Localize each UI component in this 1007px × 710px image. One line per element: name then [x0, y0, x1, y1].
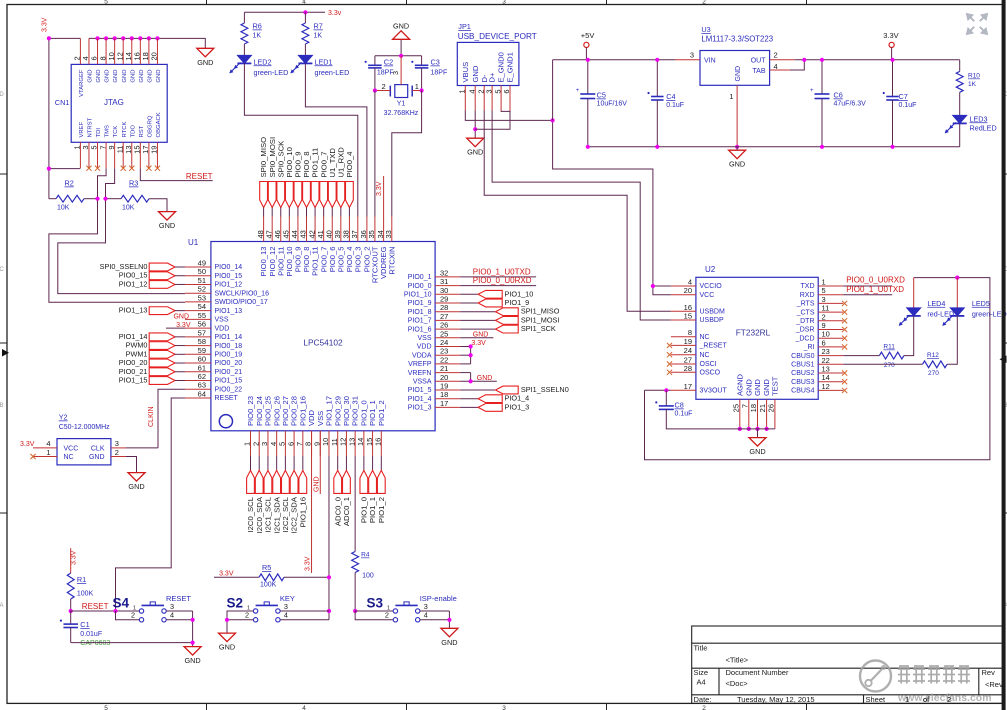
svg-text:C2: C2 [384, 58, 393, 67]
wire Y2 CLK to CLKIN [126, 447, 158, 449]
svg-text:6: 6 [822, 338, 826, 347]
svg-text:SPI1_SSELN0: SPI1_SSELN0 [521, 385, 569, 394]
svg-text:GND: GND [313, 476, 320, 492]
svg-text:PIO0_19: PIO0_19 [215, 352, 243, 359]
net flag PIO0_20 [149, 359, 175, 367]
net flag PIO1_4 [460, 398, 478, 400]
svg-text:PWM0: PWM0 [126, 341, 148, 350]
svg-text:JP1: JP1 [458, 22, 471, 31]
svg-text:PIO1_6: PIO1_6 [408, 326, 432, 333]
wire D- to U2 USBDM [484, 111, 671, 312]
pushbutton S4 RESET [139, 609, 143, 613]
svg-text:19: 19 [440, 382, 448, 391]
svg-text:Y2: Y2 [59, 413, 68, 422]
svg-text:R5: R5 [262, 563, 271, 572]
wire CN1 GND rail [89, 38, 205, 48]
svg-text:PIO0_4: PIO0_4 [345, 151, 354, 178]
resistor R5 100K [214, 576, 259, 578]
svg-text:CAP0603: CAP0603 [80, 640, 110, 647]
svg-text:1K: 1K [253, 33, 262, 40]
svg-text:GND: GND [96, 70, 102, 83]
svg-text:R10: R10 [968, 73, 980, 80]
pins U2 left [671, 285, 696, 287]
svg-text:CLKIN: CLKIN [148, 406, 155, 427]
net flag PIO1_3 [460, 406, 478, 408]
svg-text:KEY: KEY [280, 594, 295, 603]
wire U1 PIO1_17 to KEY [328, 456, 330, 611]
wire S4 pin3 [166, 610, 192, 612]
junction S4 pin4 [191, 618, 195, 622]
svg-text:26: 26 [766, 404, 775, 412]
svg-text:USB_DEVICE_PORT: USB_DEVICE_PORT [458, 32, 537, 41]
svg-text:GND: GND [473, 331, 489, 338]
pins Y2 left [33, 447, 57, 449]
svg-text:GND: GND [749, 447, 765, 456]
svg-text:GND: GND [184, 656, 200, 665]
svg-text:GND: GND [173, 313, 189, 320]
ground GND (JP1) [467, 138, 484, 147]
svg-text:www.elecfans.com: www.elecfans.com [897, 692, 992, 704]
svg-text:PIO1_12: PIO1_12 [215, 282, 243, 289]
no-connect Y2 NC [30, 454, 35, 459]
svg-text:GND: GND [393, 21, 409, 30]
svg-text:SPI1_MOSI: SPI1_MOSI [521, 315, 560, 324]
svg-text:PIO0_1: PIO0_1 [408, 274, 432, 281]
svg-text:R11: R11 [883, 344, 895, 351]
svg-text:17: 17 [440, 399, 448, 408]
svg-text:32: 32 [440, 268, 448, 277]
svg-text:GND: GND [753, 379, 762, 396]
svg-text:10uF/16V: 10uF/16V [597, 101, 628, 108]
svg-text:CN1: CN1 [55, 98, 70, 107]
connector CN1 JTAG [71, 64, 167, 142]
svg-text:RESET: RESET [82, 602, 109, 611]
svg-text:3.3V: 3.3V [305, 556, 312, 571]
svg-text:LED5: LED5 [972, 299, 990, 308]
svg-text:AGND: AGND [735, 374, 744, 396]
svg-text:3.3V: 3.3V [883, 31, 898, 40]
svg-text:PIO0_3: PIO0_3 [353, 247, 362, 273]
pin U3 OUT [770, 59, 795, 61]
svg-text:NTRST: NTRST [88, 117, 94, 137]
svg-text:0.01uF: 0.01uF [80, 631, 102, 638]
svg-text:PIO0_1_U0TXD: PIO0_1_U0TXD [473, 267, 531, 276]
power 3.3V stub (R1) [70, 548, 72, 573]
svg-text:28: 28 [440, 303, 448, 312]
junction Y1 pin1 [420, 88, 424, 92]
net flag PWM0 [149, 342, 175, 350]
junction C4 bottom [655, 145, 659, 149]
junction C5 top [586, 58, 590, 62]
svg-text:VCCIO: VCCIO [700, 283, 723, 290]
svg-text:5: 5 [104, 0, 108, 6]
wire C2/C3 gnd rail [375, 55, 422, 57]
net flag PIO1_14 [149, 333, 175, 341]
svg-text:PIO1_7: PIO1_7 [408, 318, 432, 325]
svg-text:RESET: RESET [186, 172, 213, 181]
net flag SPI0_MISO [260, 182, 268, 208]
wire S2 left to GND [227, 611, 253, 633]
ground GND (Y2) [128, 473, 145, 482]
svg-text:57: 57 [198, 328, 206, 337]
svg-text:23: 23 [822, 347, 830, 356]
svg-text:PIO1_10: PIO1_10 [404, 292, 432, 299]
svg-text:GND: GND [197, 58, 213, 67]
svg-text:2: 2 [245, 611, 249, 620]
svg-text:_CTS: _CTS [796, 309, 815, 316]
junction R4/S3 [353, 609, 357, 613]
junction VDD [469, 344, 473, 348]
svg-text:R6: R6 [253, 22, 262, 31]
wire VBUS to +5V net [465, 111, 552, 121]
net flag I2C2_SDA [293, 456, 295, 471]
svg-text:E_GND1: E_GND1 [506, 52, 515, 82]
pins CN1 top [79, 38, 81, 64]
svg-text:GND: GND [744, 379, 753, 396]
svg-text:PIO0_22: PIO0_22 [215, 386, 243, 393]
junction R7 rail [303, 10, 307, 14]
svg-text:OUT: OUT [751, 57, 767, 64]
svg-text:PIO1_1: PIO1_1 [368, 497, 377, 523]
net label 3.3V (U1 pin56) [166, 327, 185, 329]
svg-text:52: 52 [198, 285, 206, 294]
svg-text:I2C0_SDA: I2C0_SDA [255, 496, 264, 533]
svg-text:VREFP: VREFP [408, 361, 432, 368]
svg-text:OBGRQ: OBGRQ [147, 115, 153, 137]
svg-text:22: 22 [822, 356, 830, 365]
svg-text:PIO0_25: PIO0_25 [264, 396, 273, 426]
svg-text:16: 16 [684, 303, 692, 312]
net flag I2C0_SDA [258, 456, 260, 471]
svg-text:GND: GND [113, 69, 119, 82]
svg-text:VSSA: VSSA [413, 379, 432, 386]
svg-text:Document Number: Document Number [726, 668, 789, 677]
svg-text:NC: NC [700, 352, 710, 359]
svg-text:Tuesday, May 12, 2015: Tuesday, May 12, 2015 [737, 695, 815, 704]
svg-text:S2: S2 [227, 596, 244, 611]
svg-text:1K: 1K [968, 81, 977, 88]
net flag SPI1_SSELN0 [460, 389, 495, 391]
svg-text:22: 22 [440, 355, 448, 364]
net flag ADC0_1 [345, 456, 347, 471]
wire C3 to Y1 pin1 [421, 68, 423, 91]
svg-text:CBUS3: CBUS3 [791, 379, 814, 386]
net flag PIO0_7 [320, 182, 328, 208]
wire D+ to U2 USBDP [492, 111, 671, 321]
svg-text:PIO1_3: PIO1_3 [408, 405, 432, 412]
svg-text:_RESET: _RESET [699, 343, 728, 350]
svg-text:VCC: VCC [700, 292, 715, 299]
net flag SPI1_SCK [460, 328, 495, 330]
resistor R10 1K [959, 60, 961, 72]
pushbutton S2 KEY [253, 609, 257, 613]
svg-text:<Doc>: <Doc> [726, 679, 749, 688]
wire S2 pin4 [280, 619, 329, 621]
wire C2 to Y1 pin2 [374, 68, 376, 91]
svg-text:FT232RL: FT232RL [736, 328, 771, 338]
svg-text:GND: GND [219, 643, 235, 652]
ground GND (CN1) [197, 48, 214, 57]
ground GND (Y1) inverted [400, 39, 402, 56]
svg-text:64: 64 [198, 389, 206, 398]
LED4 red-LED [913, 278, 915, 308]
wire regulator GND rail [588, 146, 960, 148]
pushbutton S3 ISP-enable [393, 609, 397, 613]
svg-text:18: 18 [749, 404, 758, 412]
net flag SPI1_MOSI [460, 319, 495, 321]
net flag I2C2_SCL [284, 456, 286, 471]
svg-text:PIO0_21: PIO0_21 [215, 369, 243, 376]
ground GND (S4) [184, 647, 201, 656]
net flag PIO1_9 [460, 302, 478, 304]
svg-text:red-LED: red-LED [927, 309, 954, 318]
svg-text:TMS: TMS [105, 125, 111, 138]
svg-text:VDD: VDD [417, 344, 432, 351]
svg-text:VTARGEF: VTARGEF [79, 69, 85, 97]
wire KEY net to S2 [328, 611, 330, 620]
wire S3 pin4 [420, 619, 450, 621]
wire LED3 to GND rail [959, 123, 961, 146]
svg-text:VSS: VSS [417, 335, 431, 342]
svg-text:TAB: TAB [752, 68, 765, 75]
svg-text:ADC0_1: ADC0_1 [342, 497, 351, 526]
svg-text:A4: A4 [697, 678, 706, 687]
junction Y1 gnd rail [399, 54, 403, 58]
svg-text:PIO1_4: PIO1_4 [505, 394, 530, 403]
svg-text:RST: RST [139, 125, 145, 137]
wire U1 RXD stub [460, 285, 536, 287]
power 3.3V stub (U1 VDD pin8) [311, 431, 313, 573]
wire JP1 GND [474, 111, 476, 139]
svg-text:PIO0_27: PIO0_27 [281, 396, 290, 426]
wire S3 pin1 [355, 610, 393, 612]
svg-text:2: 2 [382, 82, 386, 91]
svg-text:PIO1_2: PIO1_2 [377, 400, 386, 426]
svg-text:CBUS1: CBUS1 [791, 362, 814, 369]
resistor R12 270 [843, 363, 922, 365]
regulator U3 LM1117-3.3/SOT223 [700, 51, 770, 86]
junction C6 top [820, 58, 824, 62]
pins U2 bottom [739, 399, 741, 429]
svg-text:0.1uF: 0.1uF [899, 102, 917, 109]
junction LED5 anode rail [955, 276, 959, 280]
wire U1 PIO0_31 to R4 [354, 456, 356, 552]
svg-text:0.1uF: 0.1uF [675, 411, 693, 418]
svg-text:9: 9 [822, 321, 826, 330]
svg-text:2: 2 [385, 611, 389, 620]
junctions U2 ground row [738, 427, 742, 431]
junction VBUS node [551, 118, 555, 122]
USB-serial U2 FT232RL [696, 277, 818, 399]
svg-text:PIO1_14: PIO1_14 [215, 334, 243, 341]
svg-text:49: 49 [198, 259, 206, 268]
svg-text:270: 270 [884, 362, 895, 369]
svg-text:3: 3 [822, 295, 826, 304]
svg-text:_DTR: _DTR [795, 318, 814, 325]
svg-text:PWM1: PWM1 [126, 349, 148, 358]
wire LED2 to U1 pin37 [244, 63, 357, 216]
svg-text:PIO1_4: PIO1_4 [408, 396, 432, 403]
svg-text:C3: C3 [431, 58, 440, 67]
svg-text:C8: C8 [675, 401, 684, 410]
svg-text:RESET: RESET [166, 594, 191, 603]
svg-text:5: 5 [104, 705, 108, 710]
wire +5V rail to U3 VIN [552, 60, 554, 121]
svg-text:1K: 1K [314, 33, 323, 40]
svg-text:PIO0_26: PIO0_26 [272, 396, 281, 426]
net flag PIO0_9 [294, 182, 302, 208]
svg-text:GND: GND [441, 638, 457, 647]
svg-text:U3: U3 [701, 25, 710, 34]
svg-text:3.3v: 3.3v [328, 10, 342, 17]
svg-text:VSS: VSS [215, 317, 229, 324]
junction VREF/3.3V [47, 167, 51, 171]
svg-text:TDO: TDO [130, 125, 136, 138]
svg-text:3.3V: 3.3V [471, 340, 486, 347]
svg-text:4: 4 [688, 278, 692, 287]
capacitor C5 10uF/16V [587, 60, 589, 94]
wire S2 pin3 [280, 610, 329, 612]
svg-text:GND: GND [130, 70, 136, 83]
svg-text:PIO0_14: PIO0_14 [215, 264, 243, 271]
svg-text:23: 23 [440, 347, 448, 356]
svg-text:58: 58 [198, 337, 206, 346]
junction S4/C1 gnd [191, 641, 195, 645]
svg-text:LED1: LED1 [315, 57, 333, 66]
svg-text:LED4: LED4 [927, 299, 945, 308]
resistor R6 1K [243, 12, 245, 23]
net flag SPI0_SCK [277, 182, 285, 208]
resistor R11 270 [843, 355, 879, 357]
svg-text:55: 55 [198, 311, 206, 320]
svg-text:+: + [810, 88, 814, 94]
svg-text:28: 28 [684, 364, 692, 373]
svg-text:C4: C4 [666, 92, 675, 101]
svg-text:CBUS2: CBUS2 [791, 370, 814, 377]
svg-text:25: 25 [440, 329, 448, 338]
svg-text:I2C2_SCL: I2C2_SCL [281, 496, 290, 532]
svg-text:PIO1_13: PIO1_13 [119, 306, 148, 315]
svg-text:12: 12 [822, 382, 830, 391]
svg-text:5: 5 [822, 286, 826, 295]
svg-text:+5V: +5V [581, 31, 595, 40]
net flag U1_RXD [337, 182, 345, 208]
resistor R1 100K [67, 573, 74, 599]
svg-text:R7: R7 [314, 22, 323, 31]
svg-text:LM1117-3.3/SOT223: LM1117-3.3/SOT223 [701, 35, 773, 44]
svg-text:3.3V: 3.3V [42, 17, 49, 32]
svg-text:PIO1_1: PIO1_1 [368, 400, 377, 426]
svg-text:3: 3 [391, 71, 400, 75]
svg-text:PIO1_15: PIO1_15 [119, 375, 148, 384]
svg-text:PIO0_31: PIO0_31 [351, 396, 360, 426]
svg-text:11: 11 [822, 304, 830, 313]
svg-text:2: 2 [115, 448, 119, 457]
net flag PIO0_15 [149, 272, 175, 280]
svg-text:NC: NC [64, 454, 74, 461]
wire S3 pin3 [420, 610, 450, 612]
junction 3.3V/CN1 [47, 36, 51, 40]
junction S2 left [225, 618, 229, 622]
LED3 RedLED [953, 115, 967, 123]
ground GND (R3) [159, 212, 176, 221]
svg-text:3: 3 [502, 0, 506, 6]
svg-text:3.3V: 3.3V [219, 570, 234, 577]
svg-text:PIO1_3: PIO1_3 [505, 402, 530, 411]
svg-text:VIN: VIN [704, 57, 716, 64]
pins U1 top [263, 217, 265, 242]
pin U3 GND [736, 85, 738, 147]
net flag PIO1_15 [149, 377, 175, 385]
svg-text:PIO0_23: PIO0_23 [246, 396, 255, 426]
net flag PIO1_11 [311, 182, 319, 208]
svg-text:PIO1_15: PIO1_15 [215, 378, 243, 385]
svg-text:LED3: LED3 [970, 114, 988, 123]
svg-text:61: 61 [198, 363, 206, 372]
net flag SPI0_MOSI [268, 182, 276, 208]
resistor R4 100 [352, 552, 359, 573]
crystal Y1 32.768KHz [395, 85, 408, 98]
svg-text:PIO1_10: PIO1_10 [505, 289, 534, 298]
svg-text:VBUS: VBUS [461, 62, 470, 83]
junction S2 pin3 [327, 609, 331, 613]
svg-text:I2C2_SDA: I2C2_SDA [290, 496, 299, 533]
svg-text:PIO0_21: PIO0_21 [119, 367, 148, 376]
junction C5 bottom [586, 145, 590, 149]
svg-text:17: 17 [684, 382, 692, 391]
svg-text:PIO1_13: PIO1_13 [215, 308, 243, 315]
svg-text:10K: 10K [122, 205, 135, 212]
capacitor C2 18PF [374, 56, 376, 66]
svg-text:green-LED: green-LED [315, 68, 350, 77]
junction U3 GND rail [735, 145, 739, 149]
svg-text:PIO0_20: PIO0_20 [215, 360, 243, 367]
wire RESET to S4 [71, 610, 140, 612]
svg-text:RTCXOUT: RTCXOUT [371, 246, 380, 283]
pins U1 left [185, 266, 211, 268]
junction VCCIO [651, 284, 655, 288]
svg-text:PIO1_0: PIO1_0 [359, 400, 368, 426]
net flag I2C1_SDA [276, 456, 278, 471]
junctions CN1 GND rail [95, 36, 99, 40]
junction C7 bottom [890, 145, 894, 149]
resistor R3 10K [106, 198, 122, 200]
svg-text:LPC54102: LPC54102 [303, 338, 343, 348]
svg-text:GND: GND [105, 70, 111, 83]
svg-text:SPI0_SSELN0: SPI0_SSELN0 [100, 262, 148, 271]
svg-text:OBGACK: OBGACK [156, 112, 162, 137]
wire RST to RESET label [140, 168, 212, 180]
svg-text:2: 2 [774, 51, 778, 60]
svg-text:SPI1_SCK: SPI1_SCK [521, 324, 556, 333]
svg-text:3.3V: 3.3V [176, 322, 191, 329]
svg-text:PIO1_9: PIO1_9 [408, 300, 432, 307]
svg-text:1: 1 [729, 92, 733, 101]
junction R1/RESET/C1 [69, 609, 73, 613]
net flag ADC0_0 [337, 456, 339, 471]
svg-text:OSCI: OSCI [700, 361, 717, 368]
svg-text:VSS: VSS [316, 411, 325, 426]
junction S3 right [447, 618, 451, 622]
ground GND (U3) [729, 150, 746, 159]
ground GND (S3) [441, 628, 458, 637]
svg-text:PIO1_16: PIO1_16 [298, 497, 307, 527]
svg-text:A: A [0, 603, 4, 609]
svg-text:PIO1_0: PIO1_0 [359, 497, 368, 523]
wire S3 pin2 [355, 611, 393, 620]
net flag U1_TXD [328, 182, 336, 208]
ground GND stub (U1 VSS pin9) [319, 431, 321, 494]
